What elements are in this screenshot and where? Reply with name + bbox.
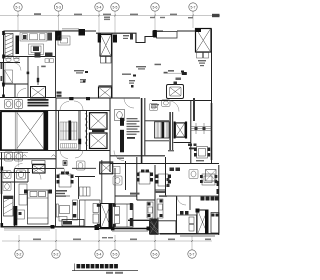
- wavy wall break by elevators: [81, 111, 88, 151]
- duct black bar center: [120, 118, 124, 126]
- small toilet lower-mid bath: [77, 161, 86, 170]
- closet lower-center: [80, 187, 91, 196]
- grid line through left block: [18, 99, 20, 168]
- bath fixtures upper-left: [5, 57, 20, 83]
- text smudges living left: [74, 70, 88, 83]
- stair 2 (striped): [155, 122, 170, 138]
- svg-text:5-5: 5-5: [113, 6, 118, 10]
- svg-text:5-6: 5-6: [153, 253, 158, 257]
- left window double lines: [1, 62, 5, 194]
- door arc left corridor: [17, 89, 26, 98]
- sink below tub: [162, 100, 171, 107]
- grid bubble 5-2a: [15, 250, 23, 258]
- right hall door arc: [168, 101, 179, 112]
- toilet by stair2: [150, 104, 158, 111]
- top dimension texts: [34, 13, 220, 20]
- bottom-center duct shaft: [101, 204, 113, 228]
- svg-text:5-5: 5-5: [113, 253, 118, 257]
- stair room: [59, 111, 80, 151]
- bed lower-right b: [211, 213, 219, 234]
- kitchen counter top-left: [20, 33, 47, 55]
- dining set lower-center a: [139, 172, 150, 184]
- left column bath fixtures: [3, 171, 11, 191]
- lower-center unit walls: [101, 168, 220, 220]
- lobby door arcs: [114, 151, 124, 161]
- top-center X room: [98, 34, 112, 64]
- living table left unit: [58, 36, 70, 45]
- dim marker above tub: [164, 72, 188, 80]
- tub with X center unit: [99, 85, 112, 98]
- dining set lower-left unit: [59, 174, 71, 187]
- left riser closet hatched (bottom): [4, 196, 14, 216]
- svg-text:5-1: 5-1: [16, 6, 21, 10]
- svg-text:5-2: 5-2: [54, 253, 59, 257]
- svg-text:5-2: 5-2: [17, 253, 22, 257]
- bottom dimension texts: [33, 237, 211, 240]
- small bath center top: [115, 110, 125, 121]
- landing door arcs: [60, 102, 69, 111]
- big left shaft with X brace: [0, 112, 48, 151]
- grid bubble 5-7: [189, 3, 197, 11]
- svg-text:5-3: 5-3: [56, 6, 61, 10]
- bed lower-center-left: [80, 200, 101, 227]
- right bath toilet pair: [189, 170, 198, 179]
- wardrobe squares right: [201, 197, 219, 201]
- wall stub with block: [27, 66, 40, 85]
- corridor heavy walls center: [141, 98, 146, 164]
- left riser closet hatched (top): [5, 34, 13, 57]
- washer pair: [45, 59, 54, 63]
- right shower with X: [206, 170, 217, 182]
- text smudges right living: [122, 64, 161, 88]
- grid bubble 5-4: [95, 3, 103, 11]
- mid horizontal walls: [0, 111, 219, 173]
- title text: [72, 264, 138, 274]
- toilets corridor bottom row: [5, 152, 23, 161]
- fridge and appliances: [23, 35, 53, 58]
- bottom dimension line: [2, 229, 212, 250]
- small text kitchen: [41, 66, 46, 68]
- tub with X left unit: [31, 87, 46, 99]
- right edge window lines: [210, 103, 212, 160]
- right corridor pipes: [191, 123, 212, 134]
- pipe valves: [195, 127, 198, 130]
- corridor wall jambs: [69, 97, 90, 100]
- door arc lower-mid unit: [64, 168, 72, 176]
- top-right tall shaft: [195, 28, 211, 58]
- lower-mid unit top wall: [56, 167, 96, 169]
- bottom window double lines: [4, 229, 215, 237]
- sofa cluster lower-left unit: [59, 200, 78, 221]
- top dimension line: [0, 11, 220, 33]
- right bath row: small rects: [167, 168, 181, 188]
- grid bubble 3-1: [14, 3, 22, 11]
- svg-text:5-7: 5-7: [191, 6, 196, 10]
- bottom wall jamb blocks: [51, 225, 151, 231]
- grid bubble 5-3: [54, 3, 62, 11]
- desk cluster right unit: [202, 174, 215, 185]
- door arc left lower bath: [14, 164, 23, 173]
- dark block left of cab B: [78, 139, 81, 145]
- bed lower-right a: [177, 215, 197, 234]
- bed lower-left unit: [28, 190, 49, 224]
- TV cabinet darks lower-center: [130, 181, 219, 226]
- grid bubble 5-4b: [95, 250, 103, 258]
- wardrobe lower-left: [19, 184, 27, 205]
- corridor top wall: [0, 98, 212, 101]
- dining set lower-center b: [158, 174, 168, 186]
- bottom-right duct shaft: [196, 209, 209, 235]
- bed lower-center-right: [113, 204, 134, 227]
- svg-text:5-6: 5-6: [153, 6, 158, 10]
- right elevator: [174, 122, 187, 139]
- grid bubble 5-6b: [151, 250, 159, 258]
- black wall bar in kitchen: [16, 36, 20, 55]
- grid bubble 5-6: [151, 3, 159, 11]
- extra small dim texts: [1, 35, 205, 161]
- bottom boundary walls: [2, 227, 220, 234]
- shoe cabinet by corridor: [57, 92, 62, 97]
- svg-text:5-4: 5-4: [97, 253, 102, 257]
- center vertical walls: [56, 29, 219, 236]
- left boundary piers: [1, 31, 5, 228]
- window seat lower-center: [62, 220, 84, 227]
- TV cabinet lower-left: [56, 204, 58, 217]
- elevator cab B: [90, 130, 108, 149]
- tub with X (right mid): [167, 82, 184, 99]
- TYPE labels: [56, 190, 167, 197]
- door arc lower-left: [30, 169, 41, 180]
- grid bubble 5-5b: [111, 250, 119, 258]
- toilets corridor top row: [5, 100, 23, 109]
- stair2 top and bottom walls: [145, 121, 191, 143]
- door arc left hall: [13, 63, 21, 71]
- dimension tick slashes: [17, 15, 194, 243]
- door arc right lower: [177, 196, 186, 205]
- top-right balcony box: [157, 32, 178, 39]
- grid bubble 5-7b: [188, 250, 196, 258]
- black wall bar lower-left: [14, 206, 18, 226]
- balcony planter dark block: [150, 219, 177, 235]
- dresser lower-left: [17, 210, 25, 219]
- lower-left unit walls: [2, 160, 102, 227]
- stair lobby door arcs: [60, 151, 68, 159]
- dining table right mid: [197, 147, 208, 159]
- elevator cab A: [90, 113, 108, 130]
- left boundary wall: [2, 31, 4, 227]
- toilet lower-left: [17, 170, 26, 179]
- grid bubble 5-2b: [52, 250, 60, 258]
- text smudges far right: [151, 60, 206, 108]
- sofa run lower-center left: [147, 199, 163, 218]
- svg-text:5-4: 5-4: [97, 6, 102, 10]
- equipment text rows: [127, 118, 140, 139]
- interior walls left wing: [0, 31, 56, 98]
- lower-left bath tub with X: [23, 155, 56, 173]
- lower-middle bath tub with X: [100, 162, 113, 174]
- corridor wall pair right: [169, 112, 173, 150]
- small dark mark below stair: [63, 161, 67, 166]
- pump group right: [188, 144, 197, 150]
- grid bubble 5-5: [111, 3, 119, 11]
- top wall black blocks: [55, 31, 62, 41]
- top boundary wall: [4, 31, 196, 43]
- balcony top lines: [62, 29, 79, 30]
- kitchen sink dark: [48, 33, 53, 41]
- AHU dark bars: [28, 99, 49, 106]
- bath fixtures center-low: [113, 167, 122, 186]
- svg-text:5-7: 5-7: [190, 253, 195, 257]
